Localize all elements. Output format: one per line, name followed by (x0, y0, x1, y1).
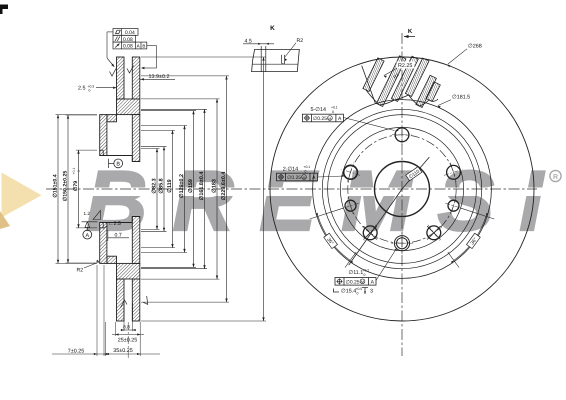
svg-text:1.2: 1.2 (84, 211, 91, 216)
hat wall (bottom) (107, 256, 117, 263)
hat wall (top) (107, 115, 117, 122)
svg-text:∅129±0.2: ∅129±0.2 (179, 174, 185, 198)
dim &#8709;129&#177;0.2 (141, 125, 187, 127)
dim &#8709;119 (141, 129, 175, 131)
svg-text:∅0.25: ∅0.25 (313, 116, 327, 122)
OD extension 268 (141, 56, 266, 58)
outboard cheek (top) (132, 57, 140, 99)
svg-text:R2.25: R2.25 (398, 63, 412, 69)
svg-text:∅150.2±0.25: ∅150.2±0.25 (62, 171, 68, 202)
svg-text:+0.5: +0.5 (356, 287, 363, 291)
hole at 306 deg (427, 226, 441, 240)
svg-text:A: A (85, 233, 89, 239)
hole at 234 deg (363, 226, 377, 240)
svg-text:∅79: ∅79 (73, 181, 79, 191)
dim &#8709;151&#177;0.4 (56, 114, 98, 116)
svg-text:∅161.8±0.4: ∅161.8±0.4 (199, 172, 205, 201)
K view arrow (404, 36, 415, 38)
svg-text:M: M (328, 117, 331, 121)
section line (402, 157, 429, 189)
outer circle d268 (270, 57, 534, 321)
svg-text:2-∅14: 2-∅14 (283, 167, 299, 173)
svg-text:+0.1: +0.1 (331, 106, 338, 110)
svg-text:0: 0 (77, 170, 81, 172)
datum A (82, 221, 98, 223)
label d110 (406, 167, 423, 182)
counterbored hole 270 deg (394, 236, 409, 251)
bore lines (100, 155, 133, 157)
svg-text:+0.1: +0.1 (72, 168, 76, 175)
vane 1 (363, 58, 384, 92)
inboard cheek (bottom) (117, 279, 125, 321)
axis centerline (46, 188, 270, 190)
svg-text:35±0.25: 35±0.25 (113, 348, 132, 354)
svg-text:M: M (361, 280, 364, 284)
hole at 198 deg (345, 200, 356, 211)
wedge left cut (362, 66, 376, 104)
svg-text:25±0.25: 25±0.25 (118, 338, 137, 344)
dim &#8709;79 (76, 149, 97, 151)
svg-text:8.8: 8.8 (123, 324, 130, 330)
svg-text:M: M (303, 176, 306, 180)
hole at 18 deg (447, 165, 461, 179)
svg-text:∅268: ∅268 (468, 44, 482, 50)
svg-text:2.5: 2.5 (78, 86, 86, 92)
svg-text:K: K (270, 25, 275, 32)
dim &#8709;82.3 (141, 148, 160, 150)
bore recess d79 (100, 149, 104, 151)
svg-text:B: B (116, 162, 120, 168)
center bore (375, 162, 430, 217)
svg-text:5-∅14: 5-∅14 (311, 107, 327, 113)
vane 2 (376, 56, 406, 107)
R2.25 label (397, 62, 415, 69)
svg-text:3: 3 (370, 289, 373, 295)
angle dim spokes (310, 208, 343, 219)
vane 4 (405, 58, 429, 97)
hole at 90 deg (395, 128, 409, 142)
circle d129 (340, 127, 463, 250)
svg-text:0: 0 (364, 273, 366, 277)
dim &#8709;183 (141, 98, 220, 100)
corner mark (0, 5, 8, 15)
bottom dims (96, 265, 98, 356)
svg-text:R2: R2 (297, 38, 304, 44)
dim &#8709;85.8 (141, 146, 167, 148)
svg-text:0.08: 0.08 (123, 44, 133, 50)
FCF leaders (107, 31, 113, 33)
svg-text:0: 0 (332, 110, 334, 114)
neck (top) (117, 99, 140, 115)
svg-text:∅85.8: ∅85.8 (158, 178, 164, 193)
outboard cheek (bottom) (132, 279, 140, 321)
svg-text:∅181.5: ∅181.5 (452, 95, 470, 101)
tolerance frame stack (113, 29, 138, 36)
front view centerlines (268, 188, 537, 190)
dim &#8709;229.6&#177;0.4 (141, 75, 229, 77)
wedge bottom scallop (366, 90, 438, 106)
bolt circle d110 (348, 135, 456, 243)
36 deg arcs (318, 216, 350, 260)
watermark logo (0, 154, 561, 249)
mount flange (bottom) (100, 223, 107, 264)
svg-text:∅183: ∅183 (211, 179, 217, 193)
svg-text:∟2.5: ∟2.5 (109, 221, 121, 227)
svg-text:∅0.25: ∅0.25 (346, 279, 360, 285)
svg-text:∅15.4: ∅15.4 (341, 289, 356, 295)
outboard plate (top) (132, 115, 140, 162)
vane 6 (426, 82, 440, 102)
dim &#8709;161.8&#177;0.4 (141, 108, 207, 110)
vent section wedge (362, 56, 441, 108)
svg-text:0: 0 (89, 89, 91, 93)
svg-text:∅82.3: ∅82.3 (151, 178, 157, 193)
circle d181.5 (313, 100, 492, 279)
svg-text:∅229.6±0.4: ∅229.6±0.4 (221, 172, 227, 201)
inboard cheek (top) (117, 57, 125, 99)
svg-text:∅151±0.4: ∅151±0.4 (52, 174, 58, 197)
circle d151 (328, 115, 477, 264)
svg-text:∅159: ∅159 (188, 179, 194, 193)
outboard plate (bottom) (132, 217, 140, 264)
svg-text:R: R (553, 174, 558, 181)
datum B (108, 159, 110, 168)
svg-text:0: 0 (357, 292, 359, 296)
svg-text:R2: R2 (77, 268, 84, 274)
svg-text:∅11.1: ∅11.1 (349, 270, 364, 276)
circle d161.8 (322, 109, 481, 268)
36 deg label (467, 233, 481, 249)
36 deg label (323, 233, 337, 249)
svg-text:+0.2: +0.2 (363, 269, 370, 273)
mount flange (top) (100, 115, 107, 156)
svg-text:7±0.25: 7±0.25 (68, 349, 84, 355)
dim &#8709;159 (141, 110, 196, 112)
svg-text:∅119: ∅119 (167, 179, 173, 192)
hole at 342 deg (448, 200, 459, 211)
finish marks (110, 69, 117, 77)
svg-text:∅0.25: ∅0.25 (287, 175, 301, 181)
svg-text:K: K (408, 28, 413, 35)
svg-text:+0.1: +0.1 (304, 165, 311, 169)
hole at 162 deg (344, 165, 358, 179)
dim &#8709;150.2&#177;0.25 (66, 114, 98, 116)
svg-text:B: B (142, 44, 145, 49)
neck (bottom) (117, 263, 140, 279)
vane 3 (391, 56, 418, 101)
vane 5 (416, 75, 437, 107)
